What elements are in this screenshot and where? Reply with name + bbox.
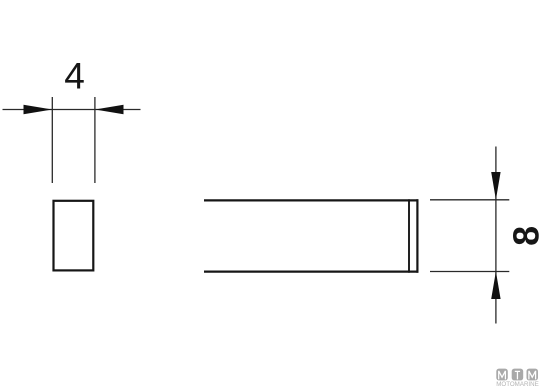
dimension 4: horizontal dimension line	[3, 109, 141, 111]
key side view: bottom edge	[204, 271, 418, 273]
dimension 4: left extension line	[51, 97, 53, 183]
dimension 4: right arrowhead	[95, 105, 124, 114]
svg-text:MOTOMARINE: MOTOMARINE	[496, 381, 539, 388]
MTM Motomarine logo: square T	[512, 369, 524, 381]
dimension 4: right extension line	[94, 97, 96, 183]
MTM Motomarine logo: letter M1	[499, 371, 506, 380]
dimension 4: left arrowhead	[24, 105, 53, 114]
key side view: chamfer line near right end	[408, 199, 410, 272]
key side view: top edge	[204, 199, 418, 201]
svg-text:8: 8	[506, 226, 540, 246]
dimension 8: vertical dimension line	[495, 147, 497, 324]
svg-text:4: 4	[64, 56, 85, 97]
MTM Motomarine logo: letter T	[515, 371, 520, 379]
MTM Motomarine logo: square M2	[527, 369, 539, 381]
dimension 8: top arrowhead	[491, 172, 500, 200]
key side view: right end edge	[416, 199, 418, 272]
MTM Motomarine logo: letter M2	[529, 371, 536, 380]
dimension 8: top extension line	[430, 199, 509, 201]
dimension 8: bottom extension line	[430, 271, 509, 273]
MTM Motomarine logo: square M1	[496, 369, 508, 381]
dimension 8: bottom arrowhead	[491, 271, 500, 299]
key cross-section rectangle (end view)	[54, 201, 94, 271]
